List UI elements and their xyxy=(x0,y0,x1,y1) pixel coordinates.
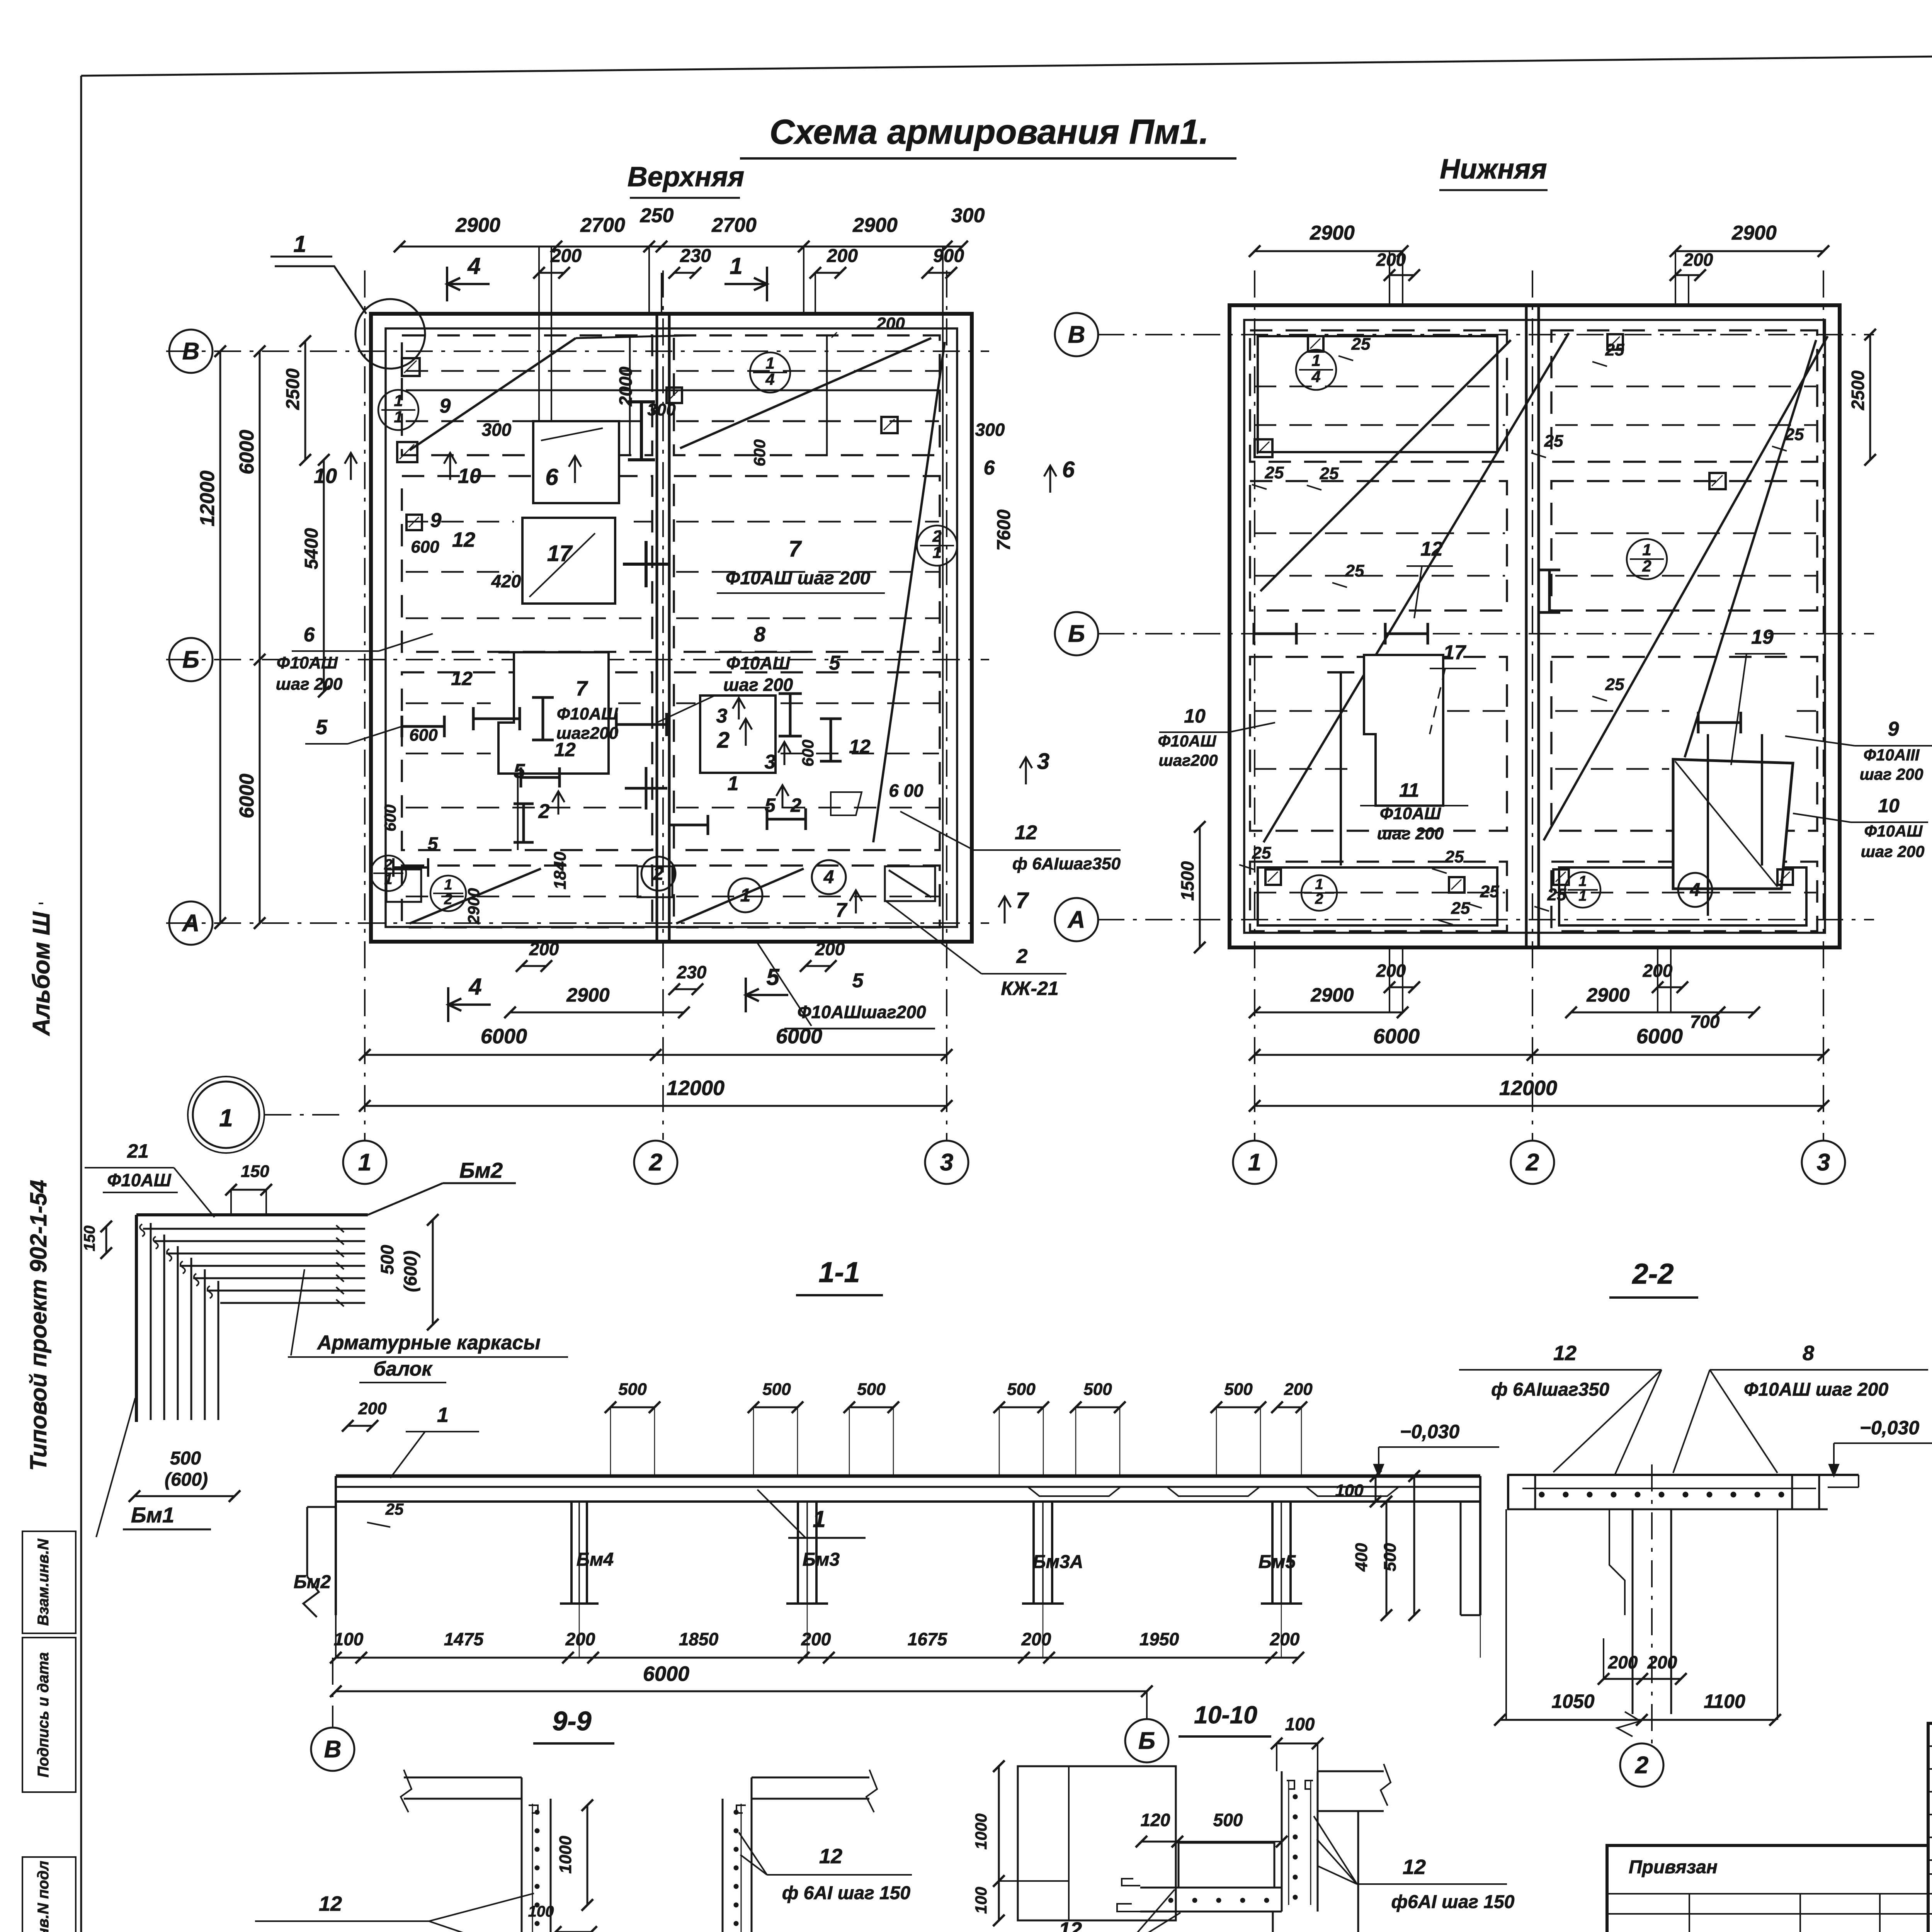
svg-text:200: 200 xyxy=(1376,250,1406,270)
section mark 1 top xyxy=(766,267,768,301)
svg-text:1: 1 xyxy=(730,253,742,279)
section 1-1 ribs xyxy=(570,1502,573,1604)
corner detail break marks xyxy=(336,1225,344,1232)
right plan bottom-left solid mesh rect xyxy=(1258,867,1497,925)
svg-text:100: 100 xyxy=(528,1903,554,1920)
svg-text:500: 500 xyxy=(1083,1380,1112,1399)
svg-text:1: 1 xyxy=(437,1403,449,1427)
axis line 3 vert xyxy=(946,270,947,1140)
svg-text:ф 6АIшаг350: ф 6АIшаг350 xyxy=(1012,854,1121,873)
section 10-10 left dims xyxy=(998,1766,1000,1920)
svg-text:2900: 2900 xyxy=(1731,222,1777,244)
svg-text:100: 100 xyxy=(334,1629,364,1649)
svg-text:900: 900 xyxy=(933,246,964,266)
right plan big diagonals xyxy=(1264,333,1569,842)
left plan left dimension 6000x2 xyxy=(259,351,261,923)
svg-text:5: 5 xyxy=(765,794,776,816)
right plan rebar crosses xyxy=(1254,633,1296,635)
section 10-10 U wall xyxy=(1281,1771,1283,1912)
svg-text:Бм3А: Бм3А xyxy=(1033,1552,1083,1572)
svg-text:В: В xyxy=(1068,321,1085,348)
section 9-9 U walls xyxy=(521,1777,523,1932)
svg-text:12: 12 xyxy=(1015,821,1037,844)
svg-text:5: 5 xyxy=(316,716,328,739)
right plan 12000 row xyxy=(1255,1105,1823,1107)
svg-text:12: 12 xyxy=(554,739,576,760)
svg-text:25: 25 xyxy=(1480,882,1499,901)
svg-text:2900: 2900 xyxy=(566,984,609,1006)
svg-text:6: 6 xyxy=(545,464,558,490)
left plan rebar crosses xyxy=(640,402,643,460)
svg-text:12: 12 xyxy=(1403,1855,1426,1879)
left plan bottom right opening shapes xyxy=(885,866,935,901)
svg-text:Ф10АШ: Ф10АШ xyxy=(1380,804,1441,823)
right plan centre wall xyxy=(1525,305,1528,947)
corner detail dim 500(600) right xyxy=(432,1220,434,1325)
svg-text:балок: балок xyxy=(373,1358,433,1380)
section 1-1 dim guides xyxy=(610,1407,611,1475)
svg-text:1950: 1950 xyxy=(1139,1629,1179,1649)
small squares centre xyxy=(667,388,682,403)
right plan outer wall xyxy=(1230,305,1840,947)
svg-text:7: 7 xyxy=(836,899,848,922)
small square right xyxy=(881,417,898,433)
svg-text:25: 25 xyxy=(385,1500,404,1518)
svg-text:200: 200 xyxy=(529,939,559,959)
svg-text:2900: 2900 xyxy=(1310,222,1355,244)
right plan top dims xyxy=(1255,250,1403,252)
svg-text:8: 8 xyxy=(754,623,765,646)
svg-text:2: 2 xyxy=(538,800,550,823)
svg-text:1500: 1500 xyxy=(1177,861,1197,901)
svg-text:200: 200 xyxy=(827,246,858,266)
left plan inner wall line xyxy=(386,328,957,927)
svg-text:4: 4 xyxy=(823,867,834,888)
svg-text:1: 1 xyxy=(740,885,751,906)
left plan interior dashed mesh rects xyxy=(402,335,652,455)
opening 7 big xyxy=(498,652,609,774)
right plan rebar verticals xyxy=(1340,672,1342,866)
svg-text:500: 500 xyxy=(762,1380,791,1399)
svg-text:500: 500 xyxy=(857,1380,886,1399)
svg-text:Ф10АШшаг200: Ф10АШшаг200 xyxy=(797,1002,926,1022)
section 10-10 left wall block xyxy=(1018,1766,1176,1920)
svg-text:2500: 2500 xyxy=(1848,370,1868,410)
svg-text:4: 4 xyxy=(765,370,774,388)
svg-text:200: 200 xyxy=(1376,961,1406,981)
svg-text:12000: 12000 xyxy=(1499,1077,1557,1100)
svg-text:В: В xyxy=(324,1736,342,1763)
right plan opening 11 stepped xyxy=(1364,655,1443,806)
svg-text:2-2: 2-2 xyxy=(1632,1258,1674,1290)
detail circle 1 top-left xyxy=(355,299,425,369)
svg-text:200: 200 xyxy=(1270,1629,1300,1649)
right plan bottom dims xyxy=(1255,1012,1403,1014)
section 1-1 recesses xyxy=(1028,1487,1121,1496)
svg-text:200: 200 xyxy=(550,246,582,266)
page frame xyxy=(81,47,1932,76)
section 1-1 6000 dim xyxy=(336,1690,1147,1692)
section 2-2 rib jog xyxy=(1609,1509,1625,1615)
detail 1 leader xyxy=(275,266,366,314)
left plan bottom 6000 row xyxy=(365,1054,947,1056)
svg-text:200: 200 xyxy=(1683,250,1713,270)
svg-text:25: 25 xyxy=(1252,844,1271,862)
section 10-10 lower wall xyxy=(1272,1912,1274,1932)
svg-text:ф6АI шаг 150: ф6АI шаг 150 xyxy=(1391,1892,1515,1912)
left plan bottom 12000 row xyxy=(365,1105,947,1107)
svg-text:500: 500 xyxy=(1224,1380,1253,1399)
svg-text:Ф10АШ: Ф10АШ xyxy=(557,704,618,723)
corner detail dim 150 left xyxy=(105,1226,107,1253)
right plan opening 19 big xyxy=(1673,759,1793,889)
left plan left dimension 12000 xyxy=(219,351,221,923)
left plan vertical mesh edge lines xyxy=(517,653,519,850)
svg-text:Нижняя: Нижняя xyxy=(1440,154,1547,185)
svg-text:12: 12 xyxy=(451,668,473,689)
svg-text:230: 230 xyxy=(677,962,707,982)
svg-text:Б: Б xyxy=(1068,621,1085,647)
axis line Б horiz xyxy=(166,659,989,660)
section 2-2 slab xyxy=(1508,1474,1859,1476)
svg-text:6000: 6000 xyxy=(236,774,258,818)
svg-text:(600): (600) xyxy=(400,1250,420,1292)
axis circle 2 right plan xyxy=(1511,1141,1554,1184)
svg-text:12: 12 xyxy=(819,1845,842,1868)
svg-text:шаг200: шаг200 xyxy=(1158,751,1218,769)
left plan centre wall xyxy=(656,314,658,942)
corner detail hooks xyxy=(140,1224,145,1236)
corner detail axis circle xyxy=(193,1082,259,1148)
svg-text:200: 200 xyxy=(1608,1652,1638,1672)
svg-text:1: 1 xyxy=(1315,876,1323,893)
section mark 4 top xyxy=(446,267,448,301)
svg-text:Арматурные каркасы: Арматурные каркасы xyxy=(316,1332,541,1354)
svg-text:5400: 5400 xyxy=(301,528,322,569)
axis circle В mid xyxy=(1055,313,1098,356)
section 1-1 bottom dim row xyxy=(336,1657,1298,1659)
svg-text:5: 5 xyxy=(829,652,841,674)
svg-text:1: 1 xyxy=(293,231,306,257)
title block small grid xyxy=(1928,1723,1932,1932)
svg-text:5: 5 xyxy=(852,969,864,992)
svg-text:9: 9 xyxy=(430,509,442,532)
right plan small squares xyxy=(1255,439,1272,457)
svg-text:25: 25 xyxy=(1785,425,1804,444)
svg-text:25: 25 xyxy=(1547,885,1566,904)
section 2-2 dim 200 200 xyxy=(1604,1678,1681,1680)
sidebar box inv xyxy=(22,1857,76,1932)
svg-text:230: 230 xyxy=(680,246,711,266)
section 2-2 outer lines xyxy=(1505,1509,1507,1720)
section 9-9 hooks xyxy=(529,1805,538,1813)
svg-text:500: 500 xyxy=(377,1245,397,1274)
svg-text:200: 200 xyxy=(565,1629,595,1649)
axis circle А mid xyxy=(1055,898,1098,941)
svg-text:1: 1 xyxy=(1578,873,1587,889)
section 2-2 leaders xyxy=(1553,1370,1662,1472)
svg-text:250: 250 xyxy=(640,204,674,227)
svg-text:1675: 1675 xyxy=(908,1629,948,1649)
svg-text:300: 300 xyxy=(482,420,512,440)
svg-text:600: 600 xyxy=(381,804,399,832)
svg-text:10: 10 xyxy=(314,464,337,488)
sidebar box vzam xyxy=(22,1531,76,1633)
svg-text:200: 200 xyxy=(815,939,845,959)
svg-text:100: 100 xyxy=(1335,1481,1364,1500)
svg-text:1000: 1000 xyxy=(556,1836,575,1874)
axis 1 vert right plan xyxy=(1254,270,1255,1140)
section mark 5 bottom xyxy=(745,978,747,1012)
left plan dim 5400 xyxy=(323,460,325,692)
axis circle 2 xyxy=(634,1141,677,1184)
svg-text:2: 2 xyxy=(1642,557,1651,575)
svg-text:300: 300 xyxy=(951,204,985,227)
svg-text:2900: 2900 xyxy=(852,214,898,236)
svg-text:Ф10АIII: Ф10АIII xyxy=(1864,746,1920,764)
svg-text:25: 25 xyxy=(1445,847,1464,866)
svg-text:700: 700 xyxy=(1690,1012,1720,1032)
svg-text:600: 600 xyxy=(750,439,769,466)
svg-text:10: 10 xyxy=(1184,705,1206,727)
svg-text:12: 12 xyxy=(849,736,871,757)
section 2-2 bottom dim xyxy=(1500,1719,1775,1721)
left plan top dimension row xyxy=(400,246,962,248)
axis circle Б mid xyxy=(1055,612,1098,655)
svg-text:ф 6АIшаг350: ф 6АIшаг350 xyxy=(1491,1379,1609,1400)
svg-text:10-10: 10-10 xyxy=(1194,1701,1257,1729)
svg-text:1-1: 1-1 xyxy=(819,1256,860,1288)
svg-text:шаг 200: шаг 200 xyxy=(1377,824,1444,843)
axis line А right plan xyxy=(1097,919,1874,920)
svg-text:25: 25 xyxy=(1345,561,1364,580)
svg-text:19: 19 xyxy=(1751,626,1774,648)
svg-text:150: 150 xyxy=(241,1162,269,1181)
axis 3 vert right plan xyxy=(1823,270,1824,1140)
svg-text:1840: 1840 xyxy=(551,852,570,889)
svg-text:2: 2 xyxy=(444,891,452,908)
svg-text:Бм2: Бм2 xyxy=(294,1572,331,1592)
corner detail bottom dim xyxy=(134,1495,235,1497)
svg-text:Ф10АШ: Ф10АШ xyxy=(1158,732,1217,750)
corner detail dim 150 top xyxy=(231,1189,266,1191)
axis line B horiz xyxy=(166,350,989,352)
svg-text:1475: 1475 xyxy=(444,1629,484,1649)
svg-text:150: 150 xyxy=(81,1226,98,1252)
section 2-2 rebar dots xyxy=(1539,1492,1544,1497)
svg-text:1000: 1000 xyxy=(972,1813,990,1849)
section 2-2 axis circle 2 xyxy=(1620,1743,1663,1787)
svg-text:Инв.N подл: Инв.N подл xyxy=(35,1861,52,1932)
svg-text:1100: 1100 xyxy=(1704,1690,1745,1712)
left plan long diagonals xyxy=(410,338,576,450)
axis circle 1 right plan xyxy=(1233,1141,1276,1184)
svg-text:120: 120 xyxy=(1141,1810,1170,1830)
svg-text:2700: 2700 xyxy=(711,214,757,236)
svg-text:2: 2 xyxy=(1526,1149,1539,1176)
svg-text:6000: 6000 xyxy=(776,1025,822,1048)
opening 17 xyxy=(522,518,615,604)
axis circle 3 xyxy=(925,1141,968,1184)
svg-text:12: 12 xyxy=(1553,1342,1577,1365)
svg-text:1: 1 xyxy=(1248,1149,1261,1176)
svg-text:Б: Б xyxy=(182,646,199,673)
axis line 1 vert xyxy=(364,270,366,1140)
svg-text:2900: 2900 xyxy=(464,888,483,924)
right plan fraction circles xyxy=(1296,350,1336,390)
svg-text:1: 1 xyxy=(813,1506,825,1532)
axis circle 3 right plan xyxy=(1802,1141,1845,1184)
right plan 6000 row xyxy=(1255,1054,1823,1056)
left plan fraction circles xyxy=(750,352,790,393)
svg-text:12: 12 xyxy=(452,528,475,551)
svg-text:Ф10АШ: Ф10АШ xyxy=(1864,822,1923,840)
svg-text:6000: 6000 xyxy=(236,430,258,474)
section 9-9 wall rebar xyxy=(535,1810,539,1815)
svg-text:400: 400 xyxy=(1352,1543,1371,1572)
svg-text:17: 17 xyxy=(547,541,573,566)
axis circle 1 xyxy=(343,1141,386,1184)
svg-text:200: 200 xyxy=(876,314,905,333)
section mark 4 bottom xyxy=(447,987,449,1022)
svg-text:500: 500 xyxy=(1213,1810,1243,1830)
svg-text:Ф10АШ: Ф10АШ xyxy=(107,1170,171,1190)
svg-text:Бм1: Бм1 xyxy=(131,1503,174,1527)
svg-text:Верхняя: Верхняя xyxy=(628,162,745,192)
section 1-1 dim 200 left xyxy=(348,1425,372,1427)
svg-text:7: 7 xyxy=(1016,888,1029,913)
svg-text:А: А xyxy=(182,910,200,937)
svg-text:2: 2 xyxy=(790,794,801,816)
section 1-1 slab xyxy=(336,1475,1480,1478)
left plan horizontal dashes top band xyxy=(406,389,939,391)
svg-text:2: 2 xyxy=(1016,945,1028,968)
svg-text:2: 2 xyxy=(1315,891,1323,907)
left plan bottom dims xyxy=(510,1012,684,1014)
svg-text:25: 25 xyxy=(1605,675,1624,694)
svg-text:7: 7 xyxy=(789,536,802,561)
svg-text:6: 6 xyxy=(1062,457,1075,482)
svg-text:25: 25 xyxy=(1451,899,1470,918)
right plan bottom-right solid mesh rect xyxy=(1559,867,1806,925)
svg-text:4: 4 xyxy=(1311,367,1320,386)
svg-text:7: 7 xyxy=(576,677,588,700)
section 1-1 top dims 500 xyxy=(611,1406,655,1408)
right plan interior dashed fills xyxy=(1254,386,1505,388)
svg-text:3: 3 xyxy=(716,705,728,727)
svg-text:6: 6 xyxy=(304,624,315,646)
svg-text:2500: 2500 xyxy=(283,368,303,410)
left plan top sub-dims xyxy=(539,272,564,274)
svg-text:Бм5: Бм5 xyxy=(1259,1552,1296,1572)
svg-text:200: 200 xyxy=(1647,1652,1677,1672)
svg-text:4: 4 xyxy=(467,253,480,279)
axis circle А left xyxy=(169,901,213,945)
right plan top-left solid mesh rect xyxy=(1258,336,1497,452)
svg-text:2: 2 xyxy=(932,527,941,545)
right plan dim 2500 right xyxy=(1869,335,1871,460)
svg-text:1: 1 xyxy=(728,772,739,795)
svg-text:2: 2 xyxy=(384,857,392,873)
svg-text:420: 420 xyxy=(491,571,521,591)
opening 3 right xyxy=(700,696,776,773)
svg-text:КЖ-21: КЖ-21 xyxy=(1001,978,1058,999)
svg-text:6: 6 xyxy=(984,457,995,479)
svg-text:1: 1 xyxy=(394,408,403,426)
sidebar box podpis xyxy=(22,1638,76,1792)
axis circle B left xyxy=(169,330,213,373)
svg-text:21: 21 xyxy=(127,1140,149,1162)
small square openings left wall xyxy=(402,358,420,376)
left plan bottom-left opening xyxy=(386,869,421,902)
section mark 6 right xyxy=(1049,466,1051,493)
svg-text:11: 11 xyxy=(1399,779,1419,801)
svg-text:−0,030: −0,030 xyxy=(1860,1417,1920,1439)
svg-text:шаг 200: шаг 200 xyxy=(276,675,343,694)
svg-text:1: 1 xyxy=(358,1149,371,1176)
svg-text:Ф10АШ шаг 200: Ф10АШ шаг 200 xyxy=(1744,1379,1889,1400)
svg-text:25: 25 xyxy=(1351,335,1371,354)
svg-text:12: 12 xyxy=(1420,538,1443,560)
svg-text:Ф10АШ: Ф10АШ xyxy=(726,653,790,673)
svg-text:2000: 2000 xyxy=(616,366,636,406)
svg-text:1: 1 xyxy=(932,543,941,561)
svg-text:25: 25 xyxy=(1265,463,1284,482)
svg-text:Взам.инв.N: Взам.инв.N xyxy=(35,1538,52,1626)
section 2-2 rib xyxy=(1632,1509,1634,1714)
svg-text:3: 3 xyxy=(765,751,776,773)
svg-text:500: 500 xyxy=(618,1380,647,1399)
svg-text:9-9: 9-9 xyxy=(552,1706,591,1736)
svg-text:Подпись и дата: Подпись и дата xyxy=(35,1652,52,1777)
opening 6 xyxy=(533,421,619,503)
svg-text:Привязан: Привязан xyxy=(1629,1857,1718,1878)
svg-text:Ф10АШ: Ф10АШ xyxy=(277,653,338,672)
right plan inner wall line xyxy=(1244,320,1825,933)
svg-text:А: А xyxy=(1067,906,1085,933)
axis line 2 vert xyxy=(662,270,664,1140)
svg-text:100: 100 xyxy=(972,1887,990,1914)
section mark 3 right xyxy=(1025,757,1027,784)
svg-text:6000: 6000 xyxy=(643,1662,689,1685)
right plan dim 1500 xyxy=(1199,827,1201,947)
svg-text:500: 500 xyxy=(1381,1543,1400,1571)
svg-text:1: 1 xyxy=(1578,888,1587,904)
section 1-1 axis circles xyxy=(311,1728,354,1771)
svg-text:1: 1 xyxy=(1311,351,1320,369)
section mark 7 right xyxy=(1004,896,1006,923)
svg-text:Б: Б xyxy=(1138,1728,1155,1754)
svg-text:8: 8 xyxy=(1803,1342,1814,1365)
svg-text:шаг 200: шаг 200 xyxy=(723,675,793,695)
svg-text:−0,030: −0,030 xyxy=(1400,1421,1460,1442)
svg-text:25: 25 xyxy=(1544,432,1563,451)
svg-text:600: 600 xyxy=(411,537,439,556)
svg-text:12000: 12000 xyxy=(667,1077,724,1100)
svg-text:2: 2 xyxy=(717,728,730,753)
svg-text:100: 100 xyxy=(1285,1714,1315,1734)
svg-text:200: 200 xyxy=(1284,1380,1313,1399)
section 9-9 flanges xyxy=(404,1777,522,1779)
svg-text:25: 25 xyxy=(1605,340,1624,359)
svg-text:6000: 6000 xyxy=(1636,1025,1683,1048)
section 10-10 slab xyxy=(1140,1887,1282,1889)
axis 2 vert right plan xyxy=(1532,270,1533,1140)
privyazan block xyxy=(1607,1845,1928,1932)
svg-text:200: 200 xyxy=(801,1629,831,1649)
svg-text:300: 300 xyxy=(647,400,676,419)
section 1-1 right end xyxy=(1460,1502,1462,1615)
